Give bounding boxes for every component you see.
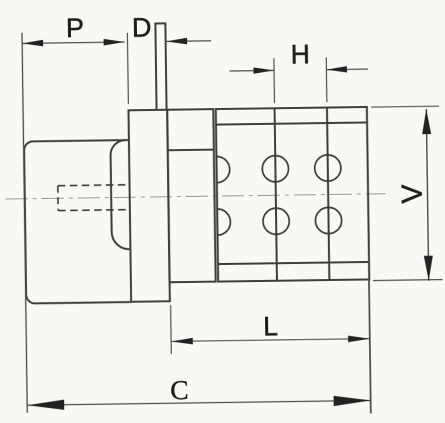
dimension line D <box>166 40 211 43</box>
hidden shaft (dashed) top <box>58 184 129 187</box>
terminal divider 2 <box>327 108 329 280</box>
right edge extension line <box>369 279 371 413</box>
extension line H left <box>273 58 276 103</box>
svg-text:C: C <box>170 374 189 405</box>
terminal half circle B0 <box>217 209 230 235</box>
extension line H right <box>325 57 328 102</box>
arrowhead P right <box>104 39 125 46</box>
arrowhead D <box>166 38 187 45</box>
svg-text:H: H <box>291 39 311 69</box>
arrowhead V top <box>422 109 431 134</box>
dimension line C <box>27 400 370 405</box>
centerline (shaft axis) <box>6 194 386 199</box>
svg-text:D: D <box>132 12 152 42</box>
terminal divider 1 <box>275 108 277 280</box>
terminal screw circle B2 <box>315 207 342 234</box>
terminal screw circle A1 <box>262 155 289 182</box>
arrowhead L right <box>348 335 370 342</box>
dimension line H right tail <box>326 68 368 71</box>
arrowhead L left <box>171 338 193 345</box>
hidden shaft (dashed) bottom <box>58 209 129 212</box>
arrowhead C right <box>334 395 371 406</box>
arrowhead H right <box>326 66 347 73</box>
dimension line P <box>22 42 124 43</box>
knob hub profile <box>110 140 129 249</box>
dimension line L <box>171 339 370 342</box>
dimension line V <box>426 109 428 281</box>
svg-text:P: P <box>66 13 84 43</box>
arrowhead V bottom <box>424 256 433 281</box>
terminal screw circle A2 <box>315 155 342 182</box>
terminal block top band <box>216 122 367 124</box>
terminal block bottom band <box>218 262 369 264</box>
left extension line <box>22 33 27 413</box>
svg-text:V: V <box>396 184 428 203</box>
terminal half circle A0 <box>216 156 229 182</box>
mid body step line <box>168 149 214 152</box>
extension line body bottom right <box>373 279 443 282</box>
arrowhead C left <box>27 400 64 411</box>
arrowhead H left <box>253 67 274 74</box>
shaft <box>155 23 166 110</box>
hidden shaft (dashed) left <box>57 186 59 211</box>
extension line plate front <box>126 33 129 104</box>
front plate <box>128 110 169 302</box>
mid body <box>167 109 216 282</box>
extension line L left <box>170 305 173 354</box>
knob (handle outline) <box>24 140 131 304</box>
terminal screw circle B1 <box>263 208 290 235</box>
dimension line H left tail <box>230 69 274 72</box>
terminal block <box>216 107 369 282</box>
arrowhead P left <box>22 40 43 47</box>
extension line body top right <box>371 105 439 108</box>
svg-text:L: L <box>263 311 278 341</box>
